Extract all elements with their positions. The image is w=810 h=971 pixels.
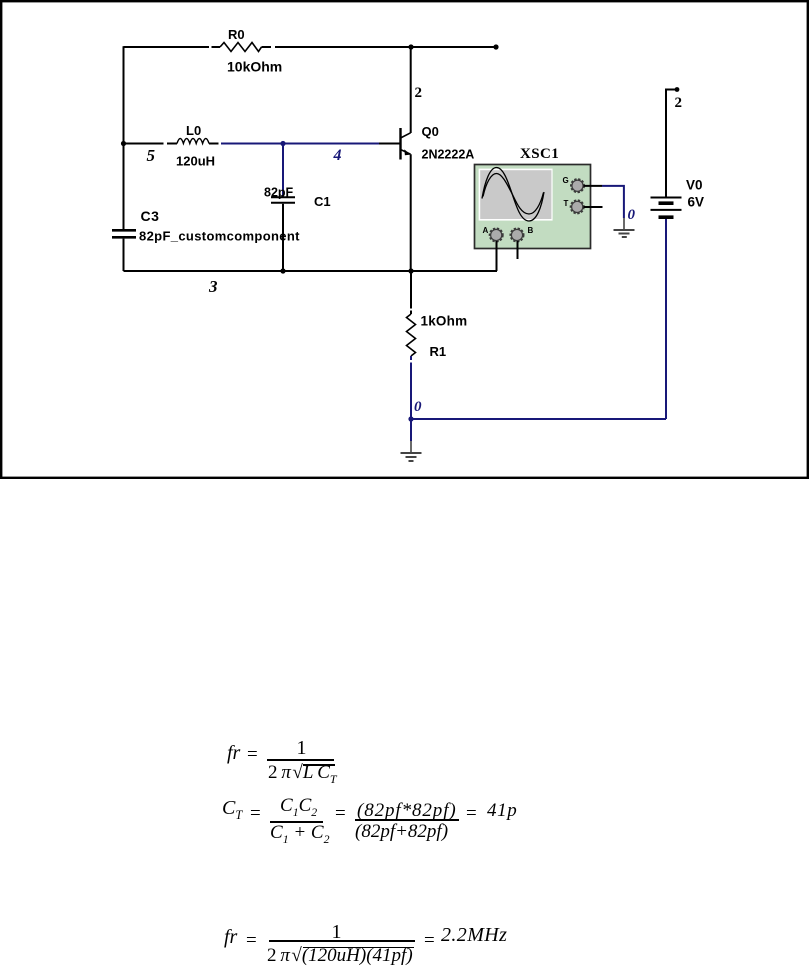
junction node 5 — [121, 141, 126, 146]
wire: emitter vertical — [410, 154, 412, 271]
node endpoint dot right — [493, 44, 498, 49]
wire: G navy to scope ground — [602, 186, 624, 218]
oscilloscope trace A — [482, 168, 544, 222]
oscilloscope trace B — [483, 174, 544, 215]
battery V0 — [651, 198, 682, 218]
wire: A probe down to net 3 — [496, 241, 498, 271]
junction node 0 — [408, 416, 413, 421]
svg-text:C3: C3 — [141, 208, 160, 224]
junction at collector top — [408, 44, 413, 49]
wire: net 4 navy from L0 to base — [221, 143, 379, 145]
knob B — [510, 228, 523, 241]
svg-text:6V: 6V — [688, 195, 705, 210]
wire: ground stub below junction — [410, 419, 412, 441]
junction C1 top — [280, 141, 285, 146]
oscilloscope XSC1 body — [475, 165, 591, 249]
svg-text:G: G — [563, 176, 569, 185]
knob T — [571, 200, 584, 213]
svg-text:0: 0 — [628, 207, 636, 223]
svg-text:0: 0 — [414, 399, 422, 415]
node endpoint dot battery — [675, 87, 680, 92]
resistor R1 — [407, 314, 416, 356]
wire: top net from left corner to R0 — [124, 46, 221, 48]
svg-text:82pF_customcomponent: 82pF_customcomponent — [139, 229, 300, 244]
capacitor C3 — [112, 230, 136, 237]
svg-text:Q0: Q0 — [422, 124, 439, 139]
capacitor C1 — [271, 197, 295, 203]
svg-text:5: 5 — [147, 146, 156, 165]
svg-text:L0: L0 — [186, 123, 201, 138]
wire: battery bottom navy down — [665, 219, 667, 419]
wire: left vertical rail — [123, 46, 125, 229]
svg-text:1kOhm: 1kOhm — [421, 314, 468, 329]
junction C1 bottom — [280, 268, 285, 273]
wire: L0 lead right — [209, 143, 219, 145]
formula 2: CT = C1C2/(C1+C2) = (82pf*82pf)/(82pf+82pf) = 41p — [222, 797, 242, 823]
wire: C1 bottom to ground net — [282, 204, 284, 271]
wire: C1 top branch navy — [282, 144, 284, 197]
wire: G lead black — [584, 185, 603, 187]
svg-text:2: 2 — [675, 95, 683, 111]
wire: bottom net 3 horizontal — [124, 270, 498, 272]
wire: collector vertical net 2 — [410, 47, 412, 133]
svg-text:R1: R1 — [430, 344, 447, 359]
schematic frame — [1, 1, 808, 478]
junction emitter bottom — [408, 268, 413, 273]
svg-text:C1: C1 — [314, 194, 331, 209]
wire: node 5 horizontal to L0 — [124, 143, 178, 145]
wire: T lead stub — [584, 206, 603, 208]
wire: navy bottom horizontal to battery — [411, 418, 666, 420]
svg-text:82pF: 82pF — [264, 186, 294, 200]
svg-text:2N2222A: 2N2222A — [422, 148, 475, 162]
svg-text:10kOhm: 10kOhm — [227, 59, 282, 75]
oscilloscope screen — [479, 169, 553, 221]
svg-text:B: B — [528, 226, 534, 235]
wire: B probe stub — [517, 241, 519, 259]
wire: collector node to right endpoint — [411, 46, 496, 48]
transistor emitter arrow — [404, 149, 411, 155]
svg-text:4: 4 — [333, 147, 342, 164]
wire: emitter to R1 — [410, 271, 412, 314]
knob G — [571, 179, 584, 192]
resistor R0 — [220, 43, 262, 52]
svg-text:A: A — [483, 226, 489, 235]
wire: base lead black — [379, 143, 400, 145]
svg-text:V0: V0 — [686, 178, 703, 193]
svg-text:120uH: 120uH — [176, 154, 215, 169]
wire: R1 bottom navy to node 0 — [410, 356, 412, 419]
inductor L0 — [177, 139, 209, 144]
svg-text:R0: R0 — [228, 27, 245, 42]
ground symbol at scope — [614, 218, 635, 237]
wire: C3 bottom to corner — [123, 239, 125, 271]
transistor Q0 — [401, 128, 411, 160]
knob A — [490, 228, 503, 241]
ground symbol at R1 — [401, 441, 422, 461]
wire: battery top to node 2 — [666, 90, 676, 198]
wire: R0 right to collector node — [262, 46, 412, 48]
svg-text:3: 3 — [208, 277, 218, 296]
svg-text:XSC1: XSC1 — [520, 146, 559, 162]
formula 3: fr = 1 / (2 pi sqrt((120uH)(41pf))) = 2.2MHz — [224, 926, 237, 949]
svg-text:2: 2 — [415, 85, 423, 101]
formula 1: fr = 1 / (2 pi sqrt(L CT)) — [227, 742, 240, 765]
svg-text:T: T — [564, 199, 569, 208]
